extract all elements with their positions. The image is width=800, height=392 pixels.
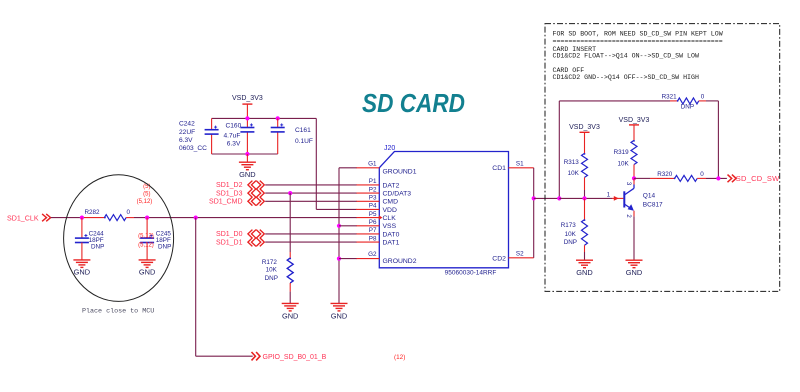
svg-text:R313: R313 <box>564 159 580 166</box>
port SD_CD_SW <box>728 175 732 183</box>
wire collector rail <box>634 177 650 179</box>
port GPIO_SD_B0_01_B <box>252 352 256 360</box>
pin P8 DAT1 <box>356 241 379 243</box>
svg-text:CD1&CD2 GND-->Q14 OFF-->SD_CD_: CD1&CD2 GND-->Q14 OFF-->SD_CD_SW HIGH <box>553 74 699 81</box>
svg-text:GND: GND <box>239 170 255 179</box>
wire SD1_D0 <box>265 233 356 235</box>
ground GND (R172) <box>282 302 299 304</box>
svg-text:10K: 10K <box>565 231 577 238</box>
ground GND (connector) <box>331 302 348 304</box>
svg-text:R319: R319 <box>614 149 630 156</box>
svg-text:(12): (12) <box>394 354 405 361</box>
svg-text:VDD: VDD <box>383 207 397 214</box>
node collector junction <box>632 176 636 180</box>
wire C242 branch <box>211 118 213 129</box>
svg-text:GND: GND <box>576 268 592 277</box>
wire bottom rail <box>212 153 278 155</box>
svg-text:2: 2 <box>625 214 631 218</box>
pin P7 DAT0 <box>356 233 379 235</box>
wire VSS <box>339 225 357 227</box>
svg-text:VSD_3V3: VSD_3V3 <box>569 124 600 131</box>
capacitor C160 <box>240 127 254 129</box>
svg-text:DNP: DNP <box>265 275 278 282</box>
wire VDD drop <box>315 118 317 209</box>
node S1S2 junction <box>532 196 536 200</box>
ground GND (R173) <box>576 259 593 261</box>
svg-text:P3: P3 <box>369 195 377 202</box>
svg-text:22UF: 22UF <box>179 129 195 136</box>
wire SD1_D2 <box>265 184 356 186</box>
svg-text:C160: C160 <box>226 123 242 130</box>
resistor R321 <box>678 98 699 104</box>
svg-text:P5: P5 <box>369 211 377 218</box>
power VSD_3V3 (cap bank) <box>242 103 252 105</box>
wire R282 to CLK pin <box>134 217 357 219</box>
wire base rail <box>559 197 610 199</box>
svg-text:J20: J20 <box>384 145 395 152</box>
wire SD1_D3 <box>265 192 356 194</box>
svg-text:FOR SD BOOT, ROM NEED SD_CD_SW: FOR SD BOOT, ROM NEED SD_CD_SW PIN KEPT … <box>553 31 723 38</box>
svg-text:(5,12): (5,12) <box>138 242 154 248</box>
svg-text:10K: 10K <box>568 170 580 177</box>
wire R321 to output <box>706 100 718 102</box>
wire emitter to gnd <box>633 216 635 260</box>
svg-text:0.1UF: 0.1UF <box>295 138 313 145</box>
svg-text:SD1_D3: SD1_D3 <box>216 190 243 197</box>
pin P5 CLK <box>356 217 379 219</box>
wire GPIO drop <box>195 218 197 357</box>
svg-text:R282: R282 <box>85 209 101 216</box>
pin 2 emitter <box>633 211 635 217</box>
svg-text:P8: P8 <box>369 235 377 242</box>
wire C161 branch <box>277 118 279 127</box>
node rail junctions <box>245 116 249 120</box>
svg-text:BC817: BC817 <box>643 202 663 209</box>
pin P5 CLK diamond <box>379 215 383 220</box>
svg-text:P4: P4 <box>369 203 377 210</box>
wire GROUND1 chain <box>339 167 357 169</box>
connector J20 outline <box>379 152 508 268</box>
svg-text:0603_CC: 0603_CC <box>179 145 207 152</box>
svg-text:==============================: ========================================… <box>553 38 723 45</box>
svg-text:CMD: CMD <box>383 199 399 206</box>
svg-text:R321: R321 <box>662 94 678 101</box>
wire S2 <box>533 198 535 257</box>
svg-text:DNP: DNP <box>681 103 694 110</box>
svg-text:DAT0: DAT0 <box>383 231 400 238</box>
svg-text:SD1_CLK: SD1_CLK <box>7 214 39 222</box>
pin S1 CD1 <box>509 167 534 169</box>
ellipse place-close <box>64 175 174 302</box>
svg-text:P1: P1 <box>369 178 377 185</box>
svg-text:CD2: CD2 <box>492 255 506 262</box>
pin G2 <box>356 258 379 260</box>
svg-text:(5): (5) <box>143 192 150 198</box>
svg-text:6.3V: 6.3V <box>227 140 241 147</box>
wire GROUND2 <box>339 258 357 260</box>
node R313 junction <box>582 196 586 200</box>
pin 3 collector <box>633 178 635 184</box>
wire top rail to R321 <box>559 100 670 102</box>
svg-text:GPIO_SD_B0_01_B: GPIO_SD_B0_01_B <box>263 354 327 361</box>
pin P3 CMD <box>356 200 379 202</box>
ground GND (Q14) <box>626 259 643 261</box>
resistor R172 <box>287 258 293 283</box>
node VSS junction <box>337 224 341 228</box>
node CD/DAT3 junction <box>288 191 292 195</box>
svg-text:R173: R173 <box>561 222 577 229</box>
capacitor C245 <box>146 218 148 239</box>
resistor terminal dots <box>677 100 679 102</box>
wire SD1_CMD <box>265 200 356 202</box>
svg-text:SD CARD: SD CARD <box>362 90 465 118</box>
wire S1 <box>533 168 535 199</box>
svg-text:10K: 10K <box>617 160 629 167</box>
pin P4 VDD <box>356 208 379 210</box>
node GROUND2 junction <box>337 257 341 261</box>
svg-text:SD1_CMD: SD1_CMD <box>209 199 242 206</box>
wire SD1_CLK main <box>51 217 84 219</box>
svg-text:R172: R172 <box>262 259 278 266</box>
svg-text:P7: P7 <box>369 227 377 234</box>
svg-text:VSD_3V3: VSD_3V3 <box>232 95 263 102</box>
svg-text:SD_CD_SW: SD_CD_SW <box>736 174 780 183</box>
svg-text:1: 1 <box>607 192 611 199</box>
resistor R320 <box>675 175 698 181</box>
svg-text:GROUND2: GROUND2 <box>383 258 417 265</box>
pin P6 VSS <box>356 225 379 227</box>
svg-text:10K: 10K <box>266 267 278 274</box>
svg-text:GROUND1: GROUND1 <box>383 168 417 175</box>
svg-text:(5,12): (5,12) <box>137 199 153 205</box>
svg-text:C242: C242 <box>179 121 195 128</box>
resistor R319 <box>631 140 637 164</box>
svg-text:CLK: CLK <box>383 215 397 222</box>
capacitor C244 <box>81 218 83 239</box>
wire C160 branch <box>246 118 248 127</box>
svg-text:DAT2: DAT2 <box>383 182 400 189</box>
svg-text:CD1&CD2 FLOAT-->Q14 ON-->SD_CD: CD1&CD2 FLOAT-->Q14 ON-->SD_CD_SW LOW <box>553 52 699 59</box>
svg-text:CD/DAT3: CD/DAT3 <box>383 191 412 198</box>
svg-text:SD1_D2: SD1_D2 <box>216 182 243 189</box>
resistor R282 <box>104 215 126 221</box>
svg-text:GND: GND <box>139 268 155 277</box>
wire to R172 <box>289 193 291 252</box>
svg-text:CD1: CD1 <box>492 165 506 172</box>
svg-text:G1: G1 <box>368 160 377 167</box>
resistor R313 <box>582 153 588 177</box>
wire to base circuit <box>534 197 560 199</box>
svg-text:VSD_3V3: VSD_3V3 <box>619 117 650 124</box>
svg-text:GND: GND <box>282 311 298 320</box>
wire left riser <box>558 101 560 198</box>
power VSD_3V3 (R319) <box>629 124 639 126</box>
node output junction <box>716 176 720 180</box>
svg-text:P6: P6 <box>369 219 377 226</box>
svg-text:DNP: DNP <box>564 239 577 246</box>
pin G1 <box>356 167 379 169</box>
pin P1 DAT2 <box>356 184 379 186</box>
svg-text:GND: GND <box>74 268 90 277</box>
svg-text:GND: GND <box>331 311 347 320</box>
svg-text:C161: C161 <box>295 127 311 134</box>
svg-text:GND: GND <box>626 268 642 277</box>
svg-text:Q14: Q14 <box>643 192 656 199</box>
svg-text:R320: R320 <box>657 171 673 178</box>
power VSD_3V3 (R313) <box>580 131 590 133</box>
ground GND (C244) <box>73 259 90 261</box>
node base junction <box>557 196 561 200</box>
wire top rail <box>212 117 317 119</box>
svg-text:95060030-14RRF: 95060030-14RRF <box>445 269 497 276</box>
svg-text:DAT1: DAT1 <box>383 240 400 247</box>
svg-text:6.3V: 6.3V <box>179 137 193 144</box>
dash-dot note box <box>545 24 780 292</box>
svg-text:0: 0 <box>127 209 131 216</box>
svg-text:Place close to MCU: Place close to MCU <box>82 308 154 316</box>
svg-text:VSS: VSS <box>383 223 397 230</box>
ground GND (cap bank) <box>246 154 248 162</box>
pin P2 CD/DAT3 <box>356 192 379 194</box>
wire SD1_D1 <box>265 241 356 243</box>
svg-text:G2: G2 <box>368 251 377 258</box>
svg-text:S2: S2 <box>516 250 524 257</box>
svg-text:S1: S1 <box>516 160 524 167</box>
svg-text:SD1_D1: SD1_D1 <box>216 239 243 246</box>
svg-text:DNP: DNP <box>91 244 104 251</box>
capacitor C242 <box>205 129 219 131</box>
pin S2 CD2 <box>509 257 534 259</box>
node CLK junctions <box>80 216 84 220</box>
svg-text:3: 3 <box>625 182 631 186</box>
ground GND (C245) <box>139 259 156 261</box>
svg-text:(5): (5) <box>143 184 150 190</box>
svg-text:DNP: DNP <box>158 244 171 251</box>
svg-text:(5,12): (5,12) <box>138 234 154 240</box>
svg-text:0: 0 <box>701 94 705 101</box>
svg-text:P2: P2 <box>369 186 377 193</box>
capacitor C161 <box>271 127 285 129</box>
svg-text:0: 0 <box>700 171 704 178</box>
wire to SD_CD_SW <box>706 177 727 179</box>
svg-text:SD1_D0: SD1_D0 <box>216 231 243 238</box>
svg-text:4.7uF: 4.7uF <box>224 132 241 139</box>
resistor R173 <box>584 198 586 219</box>
